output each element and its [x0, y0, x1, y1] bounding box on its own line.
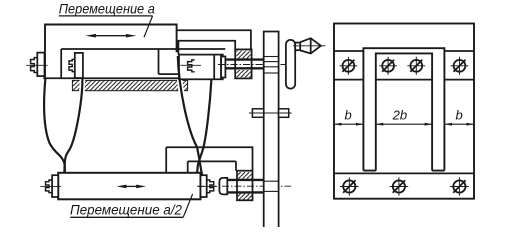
svg-text:b: b: [456, 108, 463, 123]
svg-text:Перемещение а/2: Перемещение а/2: [70, 202, 182, 218]
svg-text:Перемещение а: Перемещение а: [59, 1, 155, 17]
svg-text:b: b: [345, 108, 352, 123]
svg-text:2b: 2b: [392, 108, 407, 123]
